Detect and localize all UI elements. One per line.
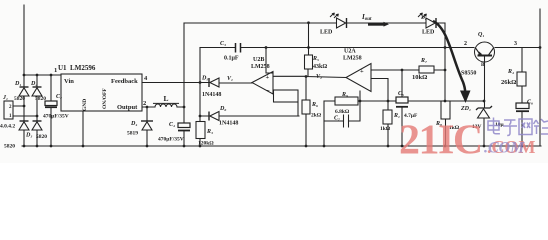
svg-text:C₃: C₃ bbox=[220, 41, 226, 47]
svg-text:2: 2 bbox=[464, 41, 467, 47]
svg-text:C₆: C₆ bbox=[527, 100, 533, 106]
svg-text:D₅: D₅ bbox=[201, 76, 208, 82]
svg-text:R₃: R₃ bbox=[206, 129, 213, 135]
svg-text:43kΩ: 43kΩ bbox=[313, 64, 327, 70]
svg-text:U1 LM2596: U1 LM2596 bbox=[58, 64, 96, 72]
svg-text:ZD₁: ZD₁ bbox=[460, 106, 471, 112]
svg-text:ON/OFF: ON/OFF bbox=[102, 88, 108, 109]
svg-text:2kΩ: 2kΩ bbox=[311, 113, 322, 119]
svg-text:LED: LED bbox=[320, 30, 333, 36]
svg-text:470μF/35V: 470μF/35V bbox=[158, 137, 184, 143]
svg-text:J₁: J₁ bbox=[2, 95, 8, 101]
svg-text:D₈: D₈ bbox=[420, 15, 427, 21]
svg-text:C₄: C₄ bbox=[169, 122, 175, 128]
svg-text:D₃: D₃ bbox=[25, 133, 32, 139]
svg-text:10kΩ: 10kΩ bbox=[412, 74, 427, 81]
svg-text:R₆: R₆ bbox=[311, 102, 318, 108]
svg-text:120kΩ: 120kΩ bbox=[198, 141, 214, 147]
svg-text:5820: 5820 bbox=[14, 96, 25, 102]
svg-text:V₂: V₂ bbox=[316, 74, 322, 80]
svg-text:U2B: U2B bbox=[253, 57, 264, 63]
svg-text:Output: Output bbox=[117, 104, 138, 111]
svg-text:R₅: R₅ bbox=[312, 56, 319, 62]
svg-text:C₅: C₅ bbox=[398, 91, 404, 97]
svg-text:Q₁: Q₁ bbox=[478, 32, 484, 38]
svg-text:0.1μF: 0.1μF bbox=[224, 56, 239, 62]
svg-text:−: − bbox=[266, 88, 270, 95]
svg-text:5819: 5819 bbox=[127, 131, 138, 137]
svg-text:GND: GND bbox=[82, 99, 88, 111]
svg-text:LM258: LM258 bbox=[251, 64, 270, 70]
svg-text:3: 3 bbox=[514, 41, 517, 47]
svg-text:470μF/35V: 470μF/35V bbox=[43, 114, 69, 120]
svg-text:R₇: R₇ bbox=[420, 58, 427, 64]
svg-text:D₁: D₁ bbox=[14, 81, 21, 87]
svg-text:L: L bbox=[164, 94, 169, 103]
svg-text:U2A: U2A bbox=[344, 49, 356, 55]
svg-text:5820: 5820 bbox=[36, 134, 47, 140]
svg-text:R₉: R₉ bbox=[341, 92, 348, 98]
svg-text:1N4148: 1N4148 bbox=[219, 121, 238, 127]
svg-text:Feedback: Feedback bbox=[111, 78, 138, 85]
svg-text:1: 1 bbox=[54, 67, 57, 74]
svg-text:2: 2 bbox=[143, 100, 146, 107]
svg-text:D₂: D₂ bbox=[30, 81, 37, 87]
svg-text:5820: 5820 bbox=[35, 96, 46, 102]
svg-text:C₂: C₂ bbox=[56, 94, 62, 100]
svg-text:26kΩ: 26kΩ bbox=[501, 79, 516, 86]
svg-text:R₄: R₄ bbox=[507, 69, 514, 75]
svg-text:+: + bbox=[266, 74, 270, 81]
svg-text:Vin: Vin bbox=[64, 78, 74, 85]
svg-text:+: + bbox=[360, 68, 364, 75]
svg-text:LED: LED bbox=[422, 30, 435, 36]
svg-text:5820: 5820 bbox=[4, 144, 15, 150]
svg-text:D₆: D₆ bbox=[219, 106, 226, 112]
svg-text:C₇: C₇ bbox=[334, 116, 340, 122]
svg-text:1kΩ: 1kΩ bbox=[380, 126, 391, 132]
svg-text:4.0.4.2: 4.0.4.2 bbox=[0, 124, 15, 130]
svg-text:D₄: D₄ bbox=[130, 121, 137, 127]
svg-text:6.8kΩ: 6.8kΩ bbox=[335, 109, 350, 115]
svg-text:1N4148: 1N4148 bbox=[202, 92, 221, 98]
svg-text:.COM: .COM bbox=[484, 140, 525, 157]
svg-text:21IC: 21IC bbox=[399, 118, 482, 164]
svg-text:LM258: LM258 bbox=[343, 56, 362, 62]
svg-text:V₁: V₁ bbox=[227, 76, 233, 82]
svg-text:S8550: S8550 bbox=[461, 71, 476, 77]
